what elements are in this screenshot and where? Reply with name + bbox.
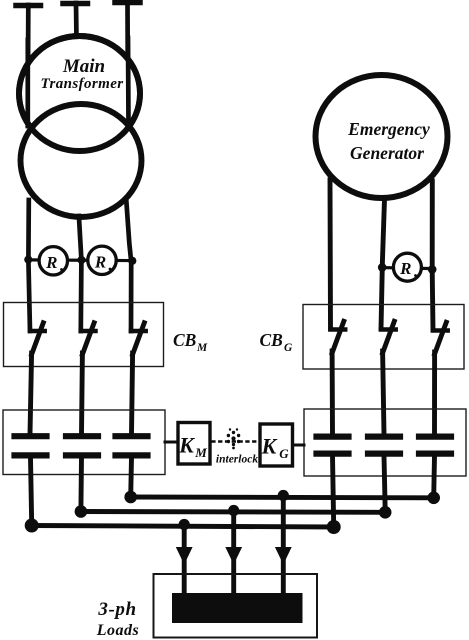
generator G xyxy=(316,75,448,198)
contactor KG contacts enclosure xyxy=(304,409,466,476)
label Main Transformer xyxy=(40,56,123,92)
terminal bar phase A xyxy=(16,3,41,9)
wire KG box link xyxy=(293,444,305,447)
load feeder A wire xyxy=(182,525,187,595)
breaker pole G-B: blade xyxy=(383,321,395,353)
contactor KM contacts enclosure xyxy=(3,410,165,475)
load feeder A arrowhead xyxy=(176,547,193,565)
svg-text:K: K xyxy=(178,433,195,458)
breaker pole G-C: tick xyxy=(433,328,448,333)
node bus bottom right xyxy=(327,520,341,534)
contactor KM contact C lower plate xyxy=(116,452,148,458)
breaker pole B: blade xyxy=(82,323,94,355)
label Emergency Generator xyxy=(347,119,430,163)
label CB_M xyxy=(173,330,208,354)
contactor KG contact C lower plate xyxy=(419,451,451,457)
wire generator phase B CB to contactor xyxy=(383,351,384,434)
circuit breaker CB_G enclosure xyxy=(303,305,464,370)
bus top (phase C) xyxy=(131,495,434,501)
wire generator phase A CB to contactor xyxy=(330,351,335,434)
load feeder B arrowhead xyxy=(225,547,242,565)
breaker pole G-C: blade xyxy=(435,322,447,354)
contactor coil KG xyxy=(260,424,293,466)
breaker pole C: tick xyxy=(131,329,146,334)
load feeder B wire xyxy=(231,511,236,595)
svg-text:Main: Main xyxy=(62,56,105,77)
svg-text:Generator: Generator xyxy=(350,143,424,163)
contactor KG contact B upper plate xyxy=(368,434,400,440)
wire phase B CB to contactor xyxy=(79,353,85,434)
wire relay link left xyxy=(28,258,134,262)
svg-text:G: G xyxy=(284,342,293,354)
label 3-ph Loads xyxy=(96,599,140,639)
load feeder C arrowhead xyxy=(275,547,292,565)
wire generator phase A contactor to bus xyxy=(333,456,334,526)
breaker pole B: tick xyxy=(81,329,96,334)
wire phase B transformer to CB xyxy=(79,216,82,331)
contactor KM contact B lower plate xyxy=(66,452,98,458)
wire generator phase C to CB xyxy=(430,181,436,330)
svg-text:G: G xyxy=(279,446,289,461)
node load tap top bus xyxy=(278,490,289,501)
bus middle (phase B) xyxy=(81,509,385,515)
contactor KM contact B upper plate xyxy=(66,433,98,439)
node load tap middle bus xyxy=(228,505,239,516)
wire phase C transformer to CB xyxy=(126,199,131,331)
wire phase A CB to contactor xyxy=(30,353,32,434)
contactor KG contact B lower plate xyxy=(368,451,400,457)
svg-text:Emergency: Emergency xyxy=(347,119,430,139)
bus bottom (phase A) xyxy=(32,526,334,528)
wire KM box link xyxy=(165,441,178,444)
breaker pole C: blade xyxy=(133,323,145,355)
svg-text:CB: CB xyxy=(173,330,197,350)
load block xyxy=(172,593,303,623)
wire generator phase A to CB xyxy=(328,180,333,329)
node bus middle right xyxy=(379,506,392,519)
node bus top right xyxy=(427,492,440,505)
terminal bar phase C xyxy=(115,0,140,5)
contactor KG contact A upper plate xyxy=(317,434,349,440)
wire phase C CB to contactor xyxy=(132,353,133,434)
breaker pole A: tick xyxy=(30,329,45,334)
wire phase B top to transformer xyxy=(74,3,79,41)
transformer T1 primary winding xyxy=(19,36,140,151)
wire phase C top to transformer xyxy=(125,2,130,124)
svg-text:R: R xyxy=(45,253,57,272)
svg-text:3-ph: 3-ph xyxy=(97,599,136,620)
node phase C relay tap xyxy=(128,257,136,265)
wire phase C contactor to bus xyxy=(128,458,134,496)
transformer T1 secondary winding xyxy=(21,104,142,217)
contactor KM contact A lower plate xyxy=(15,452,47,458)
wire generator phase B contactor to bus xyxy=(384,456,385,511)
svg-text:M: M xyxy=(196,342,208,354)
interlock dashed link xyxy=(213,440,259,442)
wire generator phase C CB to contactor xyxy=(432,352,437,434)
wire phase A transformer to CB xyxy=(28,200,30,331)
node phase A relay tap xyxy=(24,256,32,264)
contactor KG contact C upper plate xyxy=(419,434,451,440)
node generator phase C relay tap xyxy=(428,265,437,274)
svg-text:Loads: Loads xyxy=(96,622,140,639)
svg-text:R: R xyxy=(94,252,106,271)
contactor KG contact A lower plate xyxy=(317,451,349,457)
svg-text:M: M xyxy=(194,445,207,460)
breaker pole G-B: tick xyxy=(381,327,396,332)
contactor KM contact C upper plate xyxy=(116,433,148,439)
transformer T1 primary winding outline overlap xyxy=(19,36,140,151)
wire phase A contactor to bus xyxy=(31,458,32,524)
relay R2 xyxy=(88,246,116,274)
node bus middle left xyxy=(75,505,88,518)
wire phase C inside transformer xyxy=(126,38,131,124)
node phase B relay tap xyxy=(77,256,85,264)
wire generator phase C contactor to bus xyxy=(431,456,437,497)
wire relay link right xyxy=(381,268,433,269)
svg-text:R: R xyxy=(399,259,411,278)
interlock star symbol xyxy=(227,428,241,449)
wire phase A inside transformer xyxy=(25,40,30,126)
svg-text:interlock: interlock xyxy=(216,454,258,466)
breaker pole A: blade xyxy=(32,323,44,355)
relay R3 xyxy=(393,253,421,281)
circuit breaker CB_M enclosure xyxy=(4,303,164,367)
wire phase B contactor to bus xyxy=(78,458,83,510)
svg-text:K: K xyxy=(261,434,278,459)
svg-text:CB: CB xyxy=(260,330,284,350)
contactor coil KM xyxy=(178,423,210,465)
label CB_G xyxy=(260,330,294,354)
load enclosure xyxy=(154,574,318,638)
node generator phase B relay tap xyxy=(378,263,387,272)
wire generator phase B to CB xyxy=(381,199,385,329)
breaker pole G-A: tick xyxy=(331,327,346,332)
node load tap bottom bus xyxy=(179,519,190,530)
node bus top left xyxy=(124,491,137,504)
terminal bar phase B xyxy=(63,1,88,7)
relay R1 xyxy=(39,247,67,275)
load feeder C wire xyxy=(281,496,286,595)
node bus bottom left xyxy=(25,519,39,533)
wire phase A top to transformer xyxy=(25,5,30,125)
svg-text:Transformer: Transformer xyxy=(40,76,123,92)
contactor KM contact A upper plate xyxy=(15,433,47,439)
breaker pole G-A: blade xyxy=(332,321,344,353)
